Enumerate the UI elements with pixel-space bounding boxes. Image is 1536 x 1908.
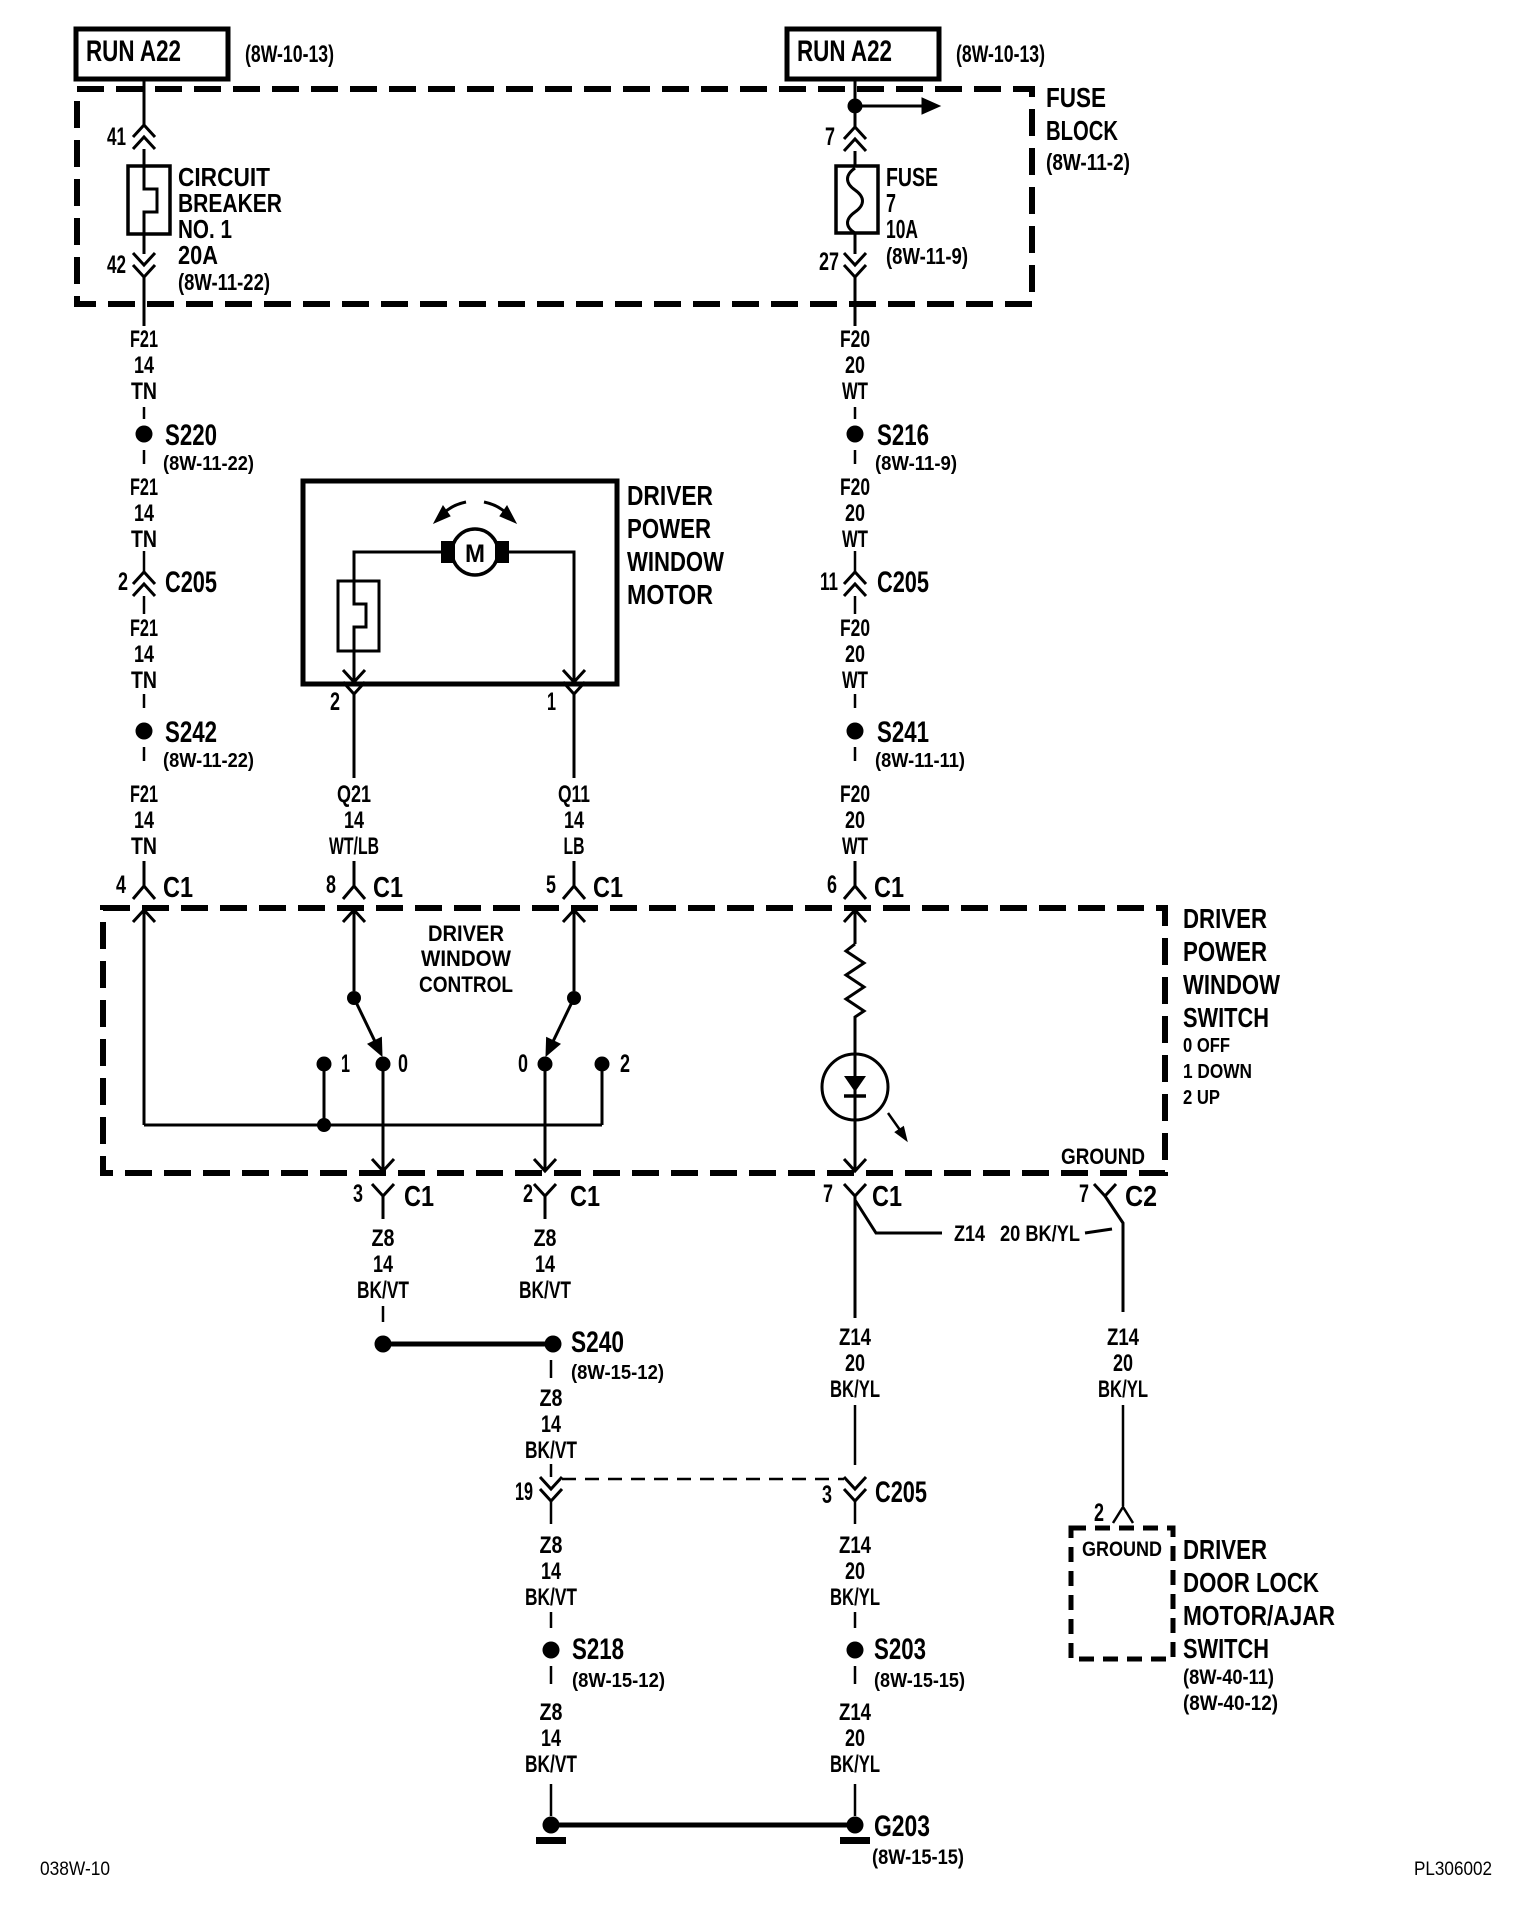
svg-text:WINDOW: WINDOW — [421, 946, 511, 971]
switch arm right (up contact) — [567, 991, 581, 1005]
wire C2 to door lock — [1122, 1405, 1125, 1506]
svg-text:2: 2 — [118, 568, 128, 596]
svg-text:BK/VT: BK/VT — [525, 1751, 577, 1778]
svg-text:Z8: Z8 — [534, 1225, 557, 1252]
svg-text:S220: S220 — [165, 419, 217, 452]
svg-text:SWITCH: SWITCH — [1183, 1633, 1269, 1664]
switch arm left (down contact) — [347, 991, 361, 1005]
wire motor right to pin 1 — [509, 552, 574, 670]
svg-text:7: 7 — [825, 123, 835, 151]
wire Q21 — [353, 712, 356, 778]
driver power window switch enclosure — [103, 908, 1165, 1173]
svg-text:038W-10: 038W-10 — [40, 1859, 110, 1880]
svg-text:BK/YL: BK/YL — [1098, 1376, 1148, 1403]
svg-text:CONTROL: CONTROL — [419, 972, 513, 997]
svg-text:M: M — [465, 540, 485, 568]
wire tap to C2 wire — [1085, 1229, 1112, 1233]
svg-text:(8W-11-2): (8W-11-2) — [1046, 149, 1130, 175]
svg-text:2: 2 — [1094, 1499, 1104, 1527]
node RUN A22 (right feed) — [787, 29, 939, 79]
svg-text:WT/LB: WT/LB — [329, 833, 379, 860]
svg-text:(8W-15-12): (8W-15-12) — [572, 1670, 665, 1692]
svg-text:(8W-11-22): (8W-11-22) — [163, 453, 254, 475]
svg-text:(8W-10-13): (8W-10-13) — [245, 41, 334, 68]
svg-text:(8W-40-11): (8W-40-11) — [1183, 1666, 1274, 1689]
wire 41 to breaker — [143, 149, 146, 166]
svg-text:Z14: Z14 — [954, 1221, 986, 1246]
svg-text:TN: TN — [131, 667, 157, 694]
svg-text:GROUND: GROUND — [1061, 1144, 1145, 1169]
svg-text:F21: F21 — [130, 474, 158, 501]
driver power window motor enclosure — [303, 481, 617, 684]
switch terminal 0 left — [376, 1057, 391, 1072]
wire terminal 2 down — [601, 1064, 604, 1125]
svg-text:(8W-40-12): (8W-40-12) — [1183, 1692, 1278, 1715]
svg-text:(8W-15-15): (8W-15-15) — [874, 1670, 965, 1692]
svg-text:(8W-11-22): (8W-11-22) — [163, 750, 254, 772]
svg-text:14: 14 — [541, 1411, 561, 1438]
splice S242 — [136, 723, 153, 740]
svg-text:WT: WT — [842, 526, 868, 553]
svg-text:0: 0 — [518, 1050, 528, 1078]
arrow feed to other circuits — [855, 105, 922, 108]
svg-text:F21: F21 — [130, 326, 158, 353]
svg-text:C205: C205 — [875, 1476, 927, 1509]
svg-text:10A: 10A — [886, 214, 918, 244]
svg-text:41: 41 — [107, 123, 126, 151]
wire terminal 0 right to pin 2 — [534, 1159, 556, 1171]
svg-text:BK/YL: BK/YL — [830, 1376, 880, 1403]
svg-text:BK/VT: BK/VT — [519, 1277, 571, 1304]
pin 4 wire into box — [133, 910, 155, 922]
LED indicator lamp — [822, 1054, 888, 1120]
svg-text:WINDOW: WINDOW — [1183, 969, 1280, 1000]
switch terminal 2 — [595, 1057, 610, 1072]
svg-text:Z8: Z8 — [372, 1225, 395, 1252]
svg-text:GROUND: GROUND — [1082, 1538, 1162, 1561]
svg-text:DRIVER: DRIVER — [428, 921, 504, 946]
wire RUN A22 right to fuse block — [854, 79, 857, 106]
svg-text:Z8: Z8 — [540, 1532, 563, 1559]
svg-text:BK/VT: BK/VT — [525, 1437, 577, 1464]
svg-text:WT: WT — [842, 378, 868, 405]
bus wire inside switch — [144, 1124, 602, 1127]
wire stub — [550, 1666, 553, 1684]
wire tap Z14 from pin 7 C1 — [855, 1200, 942, 1233]
wire stub — [143, 407, 146, 419]
motor M1 — [452, 529, 498, 575]
svg-text:TN: TN — [131, 526, 157, 553]
svg-text:F21: F21 — [130, 615, 158, 642]
svg-text:DRIVER: DRIVER — [1183, 903, 1267, 934]
svg-text:(8W-11-22): (8W-11-22) — [178, 269, 270, 295]
svg-text:11: 11 — [820, 568, 838, 596]
wire stub — [854, 450, 857, 464]
svg-text:S203: S203 — [874, 1633, 926, 1666]
svg-text:POWER: POWER — [627, 513, 711, 544]
wire stub — [382, 1306, 385, 1322]
svg-text:14: 14 — [134, 641, 154, 668]
svg-text:2 UP: 2 UP — [1183, 1087, 1220, 1109]
wire stub — [854, 407, 857, 419]
svg-text:BLOCK: BLOCK — [1046, 115, 1118, 146]
circuit breaker no.1 symbol — [128, 166, 170, 234]
fuse block enclosure — [77, 89, 1032, 304]
svg-text:20: 20 — [845, 807, 865, 834]
svg-text:Z14: Z14 — [839, 1324, 872, 1351]
splice S203 — [847, 1642, 864, 1659]
wire stub — [143, 747, 146, 761]
svg-text:BK/YL: BK/YL — [830, 1584, 880, 1611]
svg-text:0 OFF: 0 OFF — [1183, 1035, 1230, 1057]
C205 link (dashed) — [562, 1478, 844, 1481]
svg-text:19: 19 — [515, 1478, 533, 1506]
svg-text:SWITCH: SWITCH — [1183, 1002, 1269, 1033]
svg-text:14: 14 — [373, 1251, 393, 1278]
svg-text:LB: LB — [564, 833, 585, 860]
svg-text:C1: C1 — [163, 872, 193, 904]
junction dot at fuse feed — [848, 99, 863, 114]
svg-text:Z8: Z8 — [540, 1699, 563, 1726]
svg-text:(8W-10-13): (8W-10-13) — [956, 41, 1045, 68]
wire stub — [854, 1666, 857, 1684]
svg-text:F21: F21 — [130, 781, 158, 808]
svg-text:42: 42 — [107, 251, 126, 279]
svg-text:Q11: Q11 — [558, 781, 590, 808]
svg-text:2: 2 — [620, 1050, 630, 1078]
wire terminal 0 left to pin 3 — [372, 1159, 394, 1171]
wire to ground G203 — [854, 1784, 857, 1816]
svg-text:C1: C1 — [570, 1181, 600, 1213]
wire LED to pin 7 — [844, 1159, 866, 1171]
svg-text:S216: S216 — [877, 419, 929, 452]
ground G203 — [847, 1817, 864, 1834]
fuse 7 symbol — [836, 166, 878, 233]
svg-text:S241: S241 — [877, 716, 929, 749]
svg-text:6: 6 — [827, 871, 837, 899]
svg-text:14: 14 — [134, 500, 154, 527]
svg-text:G203: G203 — [874, 1810, 930, 1843]
wire stub — [854, 694, 857, 708]
svg-text:3: 3 — [353, 1180, 363, 1208]
wire stub below S240 — [550, 1360, 553, 1378]
svg-text:WT: WT — [842, 667, 868, 694]
wire terminal 1 down — [323, 1064, 326, 1125]
svg-text:S218: S218 — [572, 1633, 624, 1666]
wire Q11 — [573, 712, 576, 778]
svg-text:14: 14 — [134, 807, 154, 834]
svg-text:WINDOW: WINDOW — [627, 546, 724, 577]
wire stub — [550, 1464, 553, 1477]
svg-text:(8W-15-12): (8W-15-12) — [571, 1362, 664, 1384]
svg-text:C205: C205 — [877, 566, 929, 599]
svg-text:BK/VT: BK/VT — [357, 1277, 409, 1304]
wire to ground — [550, 1784, 553, 1816]
svg-text:PL306002: PL306002 — [1414, 1859, 1492, 1880]
svg-text:DOOR LOCK: DOOR LOCK — [1183, 1567, 1319, 1598]
splice S218 — [543, 1642, 560, 1659]
svg-text:FUSE: FUSE — [1046, 82, 1106, 113]
svg-text:POWER: POWER — [1183, 936, 1267, 967]
wire F21 leaving fuse block — [143, 277, 146, 326]
svg-text:C205: C205 — [165, 566, 217, 599]
driver door lock ground enclosure — [1071, 1528, 1173, 1659]
ground G203 link — [551, 1823, 855, 1828]
splice S240 left leg — [375, 1336, 392, 1353]
svg-text:20: 20 — [845, 641, 865, 668]
svg-text:14: 14 — [535, 1251, 555, 1278]
svg-text:BK/VT: BK/VT — [525, 1584, 577, 1611]
svg-text:C1: C1 — [874, 872, 904, 904]
svg-text:S240: S240 — [571, 1326, 624, 1359]
pin 5 wire into box — [563, 910, 585, 922]
splice S240 — [545, 1336, 562, 1353]
svg-text:F20: F20 — [840, 474, 870, 501]
svg-text:1: 1 — [341, 1050, 350, 1078]
svg-text:14: 14 — [564, 807, 584, 834]
junction dot — [317, 1118, 331, 1132]
wire stub — [143, 450, 146, 464]
wire RUN A22 left to fuse block — [143, 79, 146, 125]
svg-text:Z14: Z14 — [839, 1699, 872, 1726]
svg-text:20 BK/YL: 20 BK/YL — [1000, 1221, 1080, 1246]
svg-text:(8W-11-9): (8W-11-9) — [875, 453, 957, 475]
svg-text:RUN A22: RUN A22 — [86, 35, 181, 68]
svg-text:27: 27 — [819, 248, 839, 276]
svg-text:4: 4 — [116, 871, 126, 899]
switch terminal 1 — [317, 1057, 332, 1072]
svg-text:MOTOR/AJAR: MOTOR/AJAR — [1183, 1600, 1335, 1631]
svg-text:TN: TN — [131, 833, 157, 860]
svg-text:C2: C2 — [1125, 1181, 1157, 1213]
svg-text:WT: WT — [842, 833, 868, 860]
svg-text:7: 7 — [1079, 1180, 1089, 1208]
node RUN A22 (left feed) — [76, 29, 228, 79]
motor rotation arrows — [444, 502, 466, 513]
splice S216 — [847, 426, 864, 443]
wire stub — [550, 1612, 553, 1628]
wire motor left to breaker — [354, 552, 441, 581]
wire stub — [854, 1612, 857, 1628]
svg-text:F20: F20 — [840, 326, 870, 353]
svg-text:C1: C1 — [593, 872, 623, 904]
wire breaker to motor pin 2 — [343, 670, 365, 682]
svg-text:Z14: Z14 — [1107, 1324, 1140, 1351]
wire stub — [143, 694, 146, 708]
svg-text:1: 1 — [547, 688, 556, 716]
svg-text:20: 20 — [845, 1725, 865, 1752]
svg-text:RUN A22: RUN A22 — [797, 35, 892, 68]
svg-text:(8W-11-11): (8W-11-11) — [875, 750, 965, 772]
svg-text:DRIVER: DRIVER — [1183, 1534, 1267, 1565]
svg-text:8: 8 — [326, 871, 336, 899]
svg-text:0: 0 — [398, 1050, 408, 1078]
svg-text:20A: 20A — [178, 240, 218, 270]
svg-text:MOTOR: MOTOR — [627, 579, 713, 610]
svg-text:DRIVER: DRIVER — [627, 480, 713, 511]
svg-text:3: 3 — [822, 1481, 832, 1509]
resistor R1 (illumination) — [846, 944, 864, 1054]
svg-text:2: 2 — [523, 1180, 533, 1208]
svg-text:Q21: Q21 — [337, 781, 371, 808]
svg-text:(8W-11-9): (8W-11-9) — [886, 243, 968, 269]
svg-text:2: 2 — [330, 688, 340, 716]
svg-text:20: 20 — [845, 1558, 865, 1585]
wire stub — [854, 747, 857, 761]
svg-text:1 DOWN: 1 DOWN — [1183, 1061, 1252, 1083]
pin 6 wire into box — [844, 910, 866, 922]
svg-text:20: 20 — [845, 500, 865, 527]
svg-text:14: 14 — [541, 1725, 561, 1752]
svg-text:Z14: Z14 — [839, 1532, 872, 1559]
svg-text:20: 20 — [845, 1350, 865, 1377]
svg-text:C1: C1 — [872, 1181, 902, 1213]
svg-text:F20: F20 — [840, 781, 870, 808]
svg-text:TN: TN — [131, 378, 157, 405]
svg-text:20: 20 — [845, 352, 865, 379]
svg-text:14: 14 — [541, 1558, 561, 1585]
svg-text:5: 5 — [546, 871, 556, 899]
wire F20 leaving fuse block — [854, 277, 857, 326]
svg-text:Z8: Z8 — [540, 1385, 563, 1412]
svg-text:BK/YL: BK/YL — [830, 1751, 880, 1778]
splice S241 — [847, 723, 864, 740]
svg-text:7: 7 — [823, 1180, 833, 1208]
switch terminal 0 right — [538, 1057, 553, 1072]
wire stub — [854, 1405, 857, 1465]
svg-text:C1: C1 — [404, 1181, 434, 1213]
pin 8 wire into box — [343, 910, 365, 922]
svg-text:14: 14 — [134, 352, 154, 379]
ground G203 left terminal — [543, 1817, 560, 1834]
splice S220 — [136, 426, 153, 443]
svg-text:20: 20 — [1113, 1350, 1133, 1377]
wire Z14 below pin 7 — [854, 1219, 857, 1318]
motor internal circuit breaker — [338, 581, 379, 651]
svg-text:14: 14 — [344, 807, 364, 834]
svg-text:F20: F20 — [840, 615, 870, 642]
svg-text:C1: C1 — [373, 872, 403, 904]
LED light arrow — [888, 1113, 900, 1130]
svg-text:S242: S242 — [165, 716, 217, 749]
splice S240 link — [391, 1342, 545, 1347]
svg-text:(8W-15-15): (8W-15-15) — [872, 1846, 964, 1869]
